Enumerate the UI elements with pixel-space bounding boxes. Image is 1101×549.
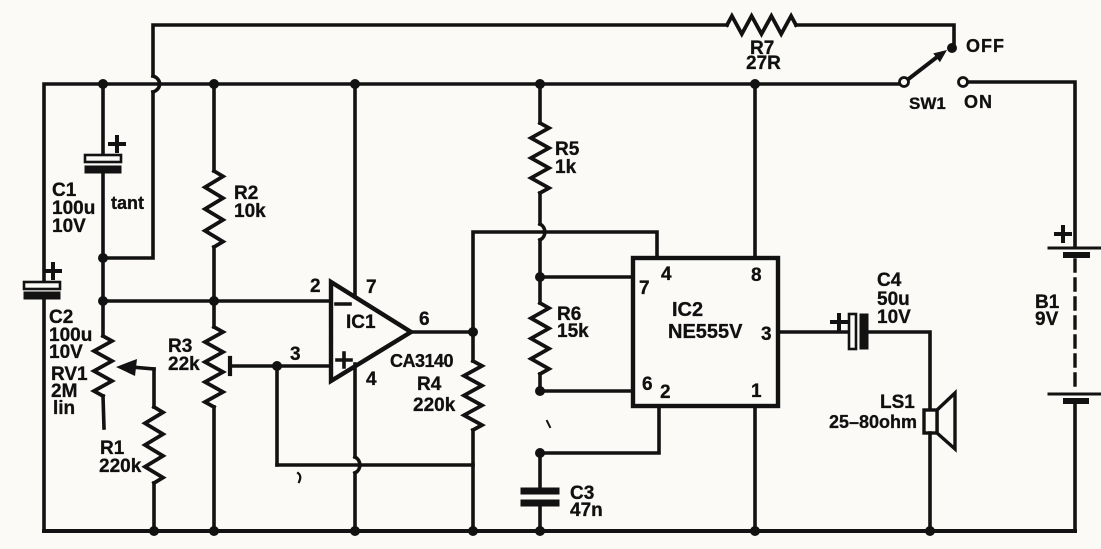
wire C3 top lead (538, 453, 542, 489)
wire to 555 pin7 (540, 275, 633, 279)
speaker LS1 (924, 393, 955, 449)
op-amp minus sign (336, 302, 350, 306)
svg-text:2: 2 (310, 276, 321, 297)
svg-text:6: 6 (642, 374, 653, 395)
svg-text:tant: tant (111, 193, 144, 213)
wire C3 bottom lead (538, 506, 542, 531)
switch SW1 lever (906, 50, 947, 81)
op-amp IC1 (331, 282, 411, 381)
wire IC1 pin7 (353, 84, 357, 297)
svg-text:10V: 10V (49, 342, 83, 363)
svg-text:15k: 15k (557, 321, 589, 342)
wire IC1 output (411, 330, 473, 334)
wire output riser to 555 pin4 (473, 232, 657, 332)
wire 555 pin1 (753, 406, 757, 531)
wire R2 bottom to node (212, 247, 216, 327)
svg-text:27R: 27R (746, 53, 781, 74)
wire 555 pin3 (778, 330, 849, 334)
wire riser to C1 bottom (103, 92, 153, 258)
svg-text:1: 1 (751, 381, 762, 402)
wire hop R5 over riser (540, 224, 545, 240)
junction ground R3 (209, 526, 219, 536)
svg-text:10V: 10V (877, 307, 911, 328)
wire R5 top lead (538, 84, 542, 123)
junction pin2 C3 (535, 448, 545, 458)
switch SW1 pole contact (900, 78, 909, 87)
wire wiper to R1 (152, 369, 156, 407)
IC2 NE555 box (633, 258, 778, 406)
wire bottom rail (44, 529, 1075, 533)
switch SW1 ON contact (959, 78, 968, 87)
junction output node (468, 327, 478, 337)
capacitor C4 (832, 314, 868, 349)
svg-text:2: 2 (660, 382, 671, 403)
svg-text:9V: 9V (1035, 309, 1059, 330)
wire R6 bottom lead (538, 374, 542, 391)
junction R6 pin6 (535, 386, 545, 396)
svg-text:4: 4 (366, 369, 377, 390)
junction rail R5 (535, 79, 545, 89)
svg-text:C4: C4 (877, 270, 902, 291)
wire battery to ground rail (1073, 403, 1077, 531)
junction ground pin4 (350, 526, 360, 536)
wire R1 to ground rail (152, 483, 156, 531)
op-amp plus sign (337, 353, 351, 367)
junction R2 R3 (209, 296, 219, 306)
wire R5 bottom upper (538, 193, 542, 224)
resistor R1 (145, 407, 163, 483)
svg-text:220k: 220k (99, 456, 142, 477)
junction ground 555 pin1 (750, 526, 760, 536)
wire inverting input node (103, 299, 331, 303)
junction rail IC1 pin7 (350, 79, 360, 89)
wire hop pin4 over pin3 wire (355, 457, 360, 473)
resistor R4 top lead (471, 332, 475, 361)
resistor R4 (464, 361, 482, 430)
potentiometer RV1 bottom stub (103, 396, 104, 428)
wire top rail right segment (796, 25, 954, 44)
junction R5 R6 (535, 272, 545, 282)
wire non-inverting input (230, 364, 331, 368)
svg-text:R4: R4 (417, 374, 442, 395)
wire ON contact to battery (968, 82, 1075, 246)
wire pin3 node down (275, 366, 279, 465)
svg-text:6: 6 (419, 309, 430, 330)
wire hop at riser over rail (153, 76, 160, 92)
svg-text:4: 4 (661, 264, 672, 285)
svg-text:OFF: OFF (966, 36, 1005, 56)
capacitor C2 (24, 264, 60, 299)
wire R6 top lead (538, 277, 542, 303)
junction rail 555 pin8 (750, 79, 760, 89)
junction ground speaker (925, 526, 935, 536)
wire R4 bottom to ground rail (471, 430, 475, 531)
resistor R6 (531, 303, 549, 374)
speck mark (547, 421, 550, 427)
wire top rail left segment (153, 25, 727, 76)
wire positive rail (44, 84, 899, 283)
wire C4 to speaker (868, 332, 930, 410)
junction ground C3 (535, 526, 545, 536)
capacitor C1 (85, 137, 124, 173)
junction rail C1 (98, 79, 108, 89)
svg-text:10k: 10k (234, 201, 266, 222)
svg-text:3: 3 (290, 344, 301, 365)
svg-text:10V: 10V (52, 216, 86, 237)
svg-text:1k: 1k (555, 157, 577, 178)
svg-text:22k: 22k (168, 354, 200, 375)
capacitor C1 lead top (101, 84, 105, 155)
svg-text:3: 3 (761, 324, 772, 345)
wire to 555 pin6 (540, 389, 633, 393)
wire pin3 node to R4 bottom (277, 463, 473, 467)
junction ground R1 (149, 526, 159, 536)
svg-text:7: 7 (639, 278, 650, 299)
capacitor C1 lead bottom (101, 173, 105, 336)
resistor R3 (205, 327, 223, 407)
potentiometer RV1 zigzag (94, 336, 112, 396)
svg-text:IC2: IC2 (672, 299, 703, 321)
speck mark (298, 473, 300, 482)
junction rail R2 (209, 79, 219, 89)
wire R3 bottom to ground rail (212, 407, 216, 531)
svg-text:220k: 220k (413, 395, 456, 416)
svg-text:7: 7 (366, 277, 377, 298)
svg-text:lin: lin (53, 398, 75, 419)
wire left vertical below C2 (42, 299, 46, 531)
svg-text:CA3140: CA3140 (390, 351, 454, 371)
resistor R5 (531, 123, 549, 193)
svg-text:NE555V: NE555V (668, 321, 743, 343)
junction C1 bottom (98, 253, 108, 263)
wire IC1 pin4 upper (353, 364, 357, 457)
wire speaker to ground rail (928, 433, 932, 531)
wire R5 bottom lower (538, 240, 542, 277)
svg-text:8: 8 (751, 265, 762, 286)
capacitor C3 (521, 488, 559, 506)
svg-text:47n: 47n (570, 500, 603, 521)
svg-text:SW1: SW1 (909, 94, 946, 113)
switch SW1 OFF contact (947, 43, 957, 53)
svg-text:ON: ON (964, 92, 993, 112)
battery B1 (1049, 227, 1101, 401)
svg-text:LS1: LS1 (880, 392, 915, 413)
wire IC1 pin4 lower (353, 473, 357, 531)
resistor R2 (205, 171, 223, 247)
node wiper tap bar (228, 358, 232, 374)
svg-text:25–80ohm: 25–80ohm (829, 412, 917, 432)
resistor R7 (727, 16, 796, 34)
wire 555 pin8 (753, 84, 757, 258)
wire 555 pin2 (540, 406, 659, 453)
wire R2 top lead (212, 84, 216, 171)
junction ground R4 (468, 526, 478, 536)
junction RV1 top (98, 296, 108, 306)
potentiometer RV1 wiper arrow (116, 359, 154, 376)
svg-text:IC1: IC1 (346, 312, 376, 333)
junction pin3 node (272, 361, 282, 371)
